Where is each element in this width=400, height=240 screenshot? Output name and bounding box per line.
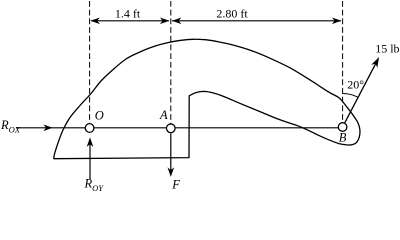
pin O bbox=[85, 124, 94, 133]
reaction R_OY arrow bbox=[87, 137, 94, 179]
reaction R_OX arrowhead bbox=[44, 125, 53, 132]
force F arrow bbox=[168, 134, 175, 177]
centerline dashed at O bbox=[89, 1, 91, 123]
pin A bbox=[166, 124, 175, 133]
centerline dashed at A bbox=[170, 1, 172, 124]
svg-text:2.80 ft: 2.80 ft bbox=[216, 7, 248, 21]
centerline dashed at B bbox=[342, 1, 344, 122]
main horizontal line O-A-B bbox=[16, 127, 338, 129]
dimension line 2.80 ft bbox=[172, 18, 342, 25]
svg-text:F: F bbox=[171, 177, 180, 191]
svg-text:15 lb: 15 lb bbox=[375, 42, 399, 56]
angle arc 20 deg bbox=[343, 94, 359, 98]
svg-text:ROY: ROY bbox=[84, 177, 105, 194]
svg-text:O: O bbox=[95, 109, 104, 123]
svg-text:A: A bbox=[159, 108, 168, 122]
svg-text:ROX: ROX bbox=[0, 118, 21, 135]
svg-text:B: B bbox=[339, 131, 347, 145]
dimension line 1.4 ft bbox=[90, 18, 169, 25]
member outline bbox=[54, 39, 360, 158]
svg-text:20°: 20° bbox=[347, 78, 364, 92]
svg-text:1.4 ft: 1.4 ft bbox=[115, 7, 141, 21]
pin B bbox=[338, 123, 347, 132]
15 lb force arrow at B bbox=[345, 57, 379, 123]
